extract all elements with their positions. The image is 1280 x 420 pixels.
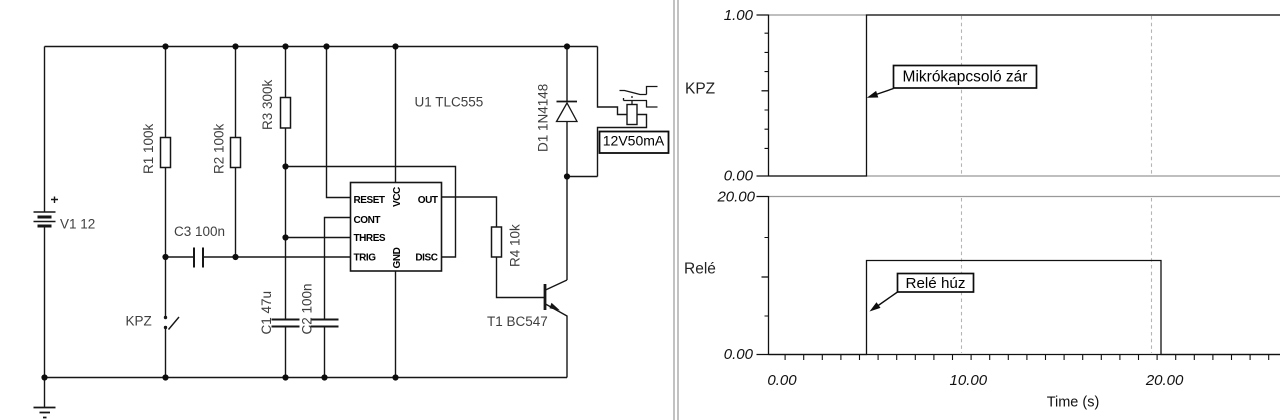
relay value box 12V50mA xyxy=(600,132,669,154)
svg-text:C1 47u: C1 47u xyxy=(259,291,274,335)
y axis bottom plot xyxy=(757,196,769,355)
svg-text:D1 1N4148: D1 1N4148 xyxy=(536,84,551,152)
svg-text:10.00: 10.00 xyxy=(950,372,988,389)
wire THRES row xyxy=(286,237,351,239)
wire relay node row xyxy=(567,176,598,178)
wire OUT to R4 xyxy=(442,197,497,227)
svg-text:OUT: OUT xyxy=(418,195,438,206)
y axis bottom plot minor ticks xyxy=(765,238,769,317)
dashed gridline t=20 xyxy=(1151,16,1153,353)
plot bottom border (0.00 level top plot) gray xyxy=(769,175,1280,177)
node rail C2 xyxy=(321,374,327,380)
svg-text:DISC: DISC xyxy=(415,253,437,264)
switch KPZ xyxy=(164,316,179,330)
svg-text:VCC: VCC xyxy=(392,187,403,207)
svg-text:20.00: 20.00 xyxy=(716,189,755,206)
relay K1 coil xyxy=(627,105,637,125)
node top rail / R2 xyxy=(232,43,238,49)
resistor R4 xyxy=(492,227,502,257)
wire KPZ branch lower xyxy=(165,329,167,378)
dashed gridline t=10 xyxy=(961,16,963,353)
resistor R3 xyxy=(281,98,291,129)
node top rail / D1 xyxy=(564,43,570,49)
resistor R1 xyxy=(161,138,171,168)
callout arrow 2 xyxy=(878,292,898,306)
y axis top plot xyxy=(757,15,769,177)
battery V1 xyxy=(34,197,59,227)
diode D1 xyxy=(557,102,578,122)
svg-text:12V50mA: 12V50mA xyxy=(603,133,665,149)
svg-text:THRES: THRES xyxy=(354,233,386,244)
wire R3 node to DISC link xyxy=(286,167,456,258)
wire bottom rail xyxy=(45,377,568,379)
svg-text:KPZ: KPZ xyxy=(126,314,152,329)
wire diode/collector vertical xyxy=(566,47,568,281)
node top rail / RESET xyxy=(323,43,329,49)
svg-text:0.00: 0.00 xyxy=(767,372,797,389)
svg-text:0.00: 0.00 xyxy=(724,168,754,185)
callout box Rele huz xyxy=(898,274,974,293)
wire KPZ branch upper xyxy=(165,257,167,316)
svg-text:20.00: 20.00 xyxy=(1145,372,1184,389)
node rail GND pin xyxy=(392,374,398,380)
wire left vertical (battery branch) xyxy=(44,47,46,378)
node R3-DISC xyxy=(282,163,288,169)
node top rail / R3 xyxy=(282,43,288,49)
x axis line xyxy=(769,354,1280,356)
svg-text:KPZ: KPZ xyxy=(685,81,715,98)
wire top rail xyxy=(45,46,598,48)
wire R3 branch xyxy=(285,47,287,167)
node D1-collector-relay xyxy=(564,173,570,179)
svg-text:R3 300k: R3 300k xyxy=(260,79,275,130)
wire GND pin xyxy=(395,271,397,378)
capacitor C3 xyxy=(194,248,203,268)
node rail KPZ xyxy=(162,374,168,380)
op-amp/IC U1 TLC555 box xyxy=(351,183,442,272)
wire R1 branch xyxy=(165,47,167,258)
transistor T1 xyxy=(545,280,567,316)
node ground rail left xyxy=(41,374,47,380)
wire relay return xyxy=(598,115,647,177)
svg-text:GND: GND xyxy=(392,247,403,268)
svg-text:Mikrókapcsoló zár: Mikrókapcsoló zár xyxy=(903,69,1028,86)
svg-text:T1 BC547: T1 BC547 xyxy=(487,314,548,329)
svg-text:Relé húz: Relé húz xyxy=(906,275,966,292)
wire relay left feed xyxy=(598,47,628,115)
node top rail / R1 xyxy=(162,43,168,49)
wire VCC pin xyxy=(395,47,397,183)
svg-text:U1 TLC555: U1 TLC555 xyxy=(415,95,484,110)
wire emitter to bottom rail xyxy=(566,316,568,378)
svg-text:RESET: RESET xyxy=(354,195,385,206)
svg-text:0.00: 0.00 xyxy=(724,346,754,363)
wire TRIG row xyxy=(166,256,351,258)
svg-text:R1 100k: R1 100k xyxy=(141,123,156,174)
svg-text:R2 100k: R2 100k xyxy=(212,123,227,174)
wire CONT row to C2 xyxy=(325,218,351,378)
KPZ trace xyxy=(769,15,1280,176)
node TRIG-R2 xyxy=(232,254,238,260)
splitter divider xyxy=(674,0,678,420)
plot top border (1.00 level) gray xyxy=(769,14,1280,16)
node top rail / VCC xyxy=(392,43,398,49)
svg-text:CONT: CONT xyxy=(354,215,381,226)
wire R4 to base xyxy=(497,257,545,298)
wire ground stem xyxy=(44,378,46,408)
svg-text:Relé: Relé xyxy=(684,261,716,278)
y axis top plot minor ticks xyxy=(765,33,769,148)
wire THRES node vertical to C1 xyxy=(285,167,287,378)
svg-text:1.00: 1.00 xyxy=(724,7,754,24)
ground symbol xyxy=(34,408,56,418)
callout arrow 1 xyxy=(876,89,894,95)
relay armature link xyxy=(624,96,658,107)
capacitor C2 xyxy=(311,320,339,327)
svg-text:C3 100n: C3 100n xyxy=(174,224,225,239)
wire R2 branch xyxy=(235,47,237,258)
node rail C1 xyxy=(282,374,288,380)
svg-text:TRIG: TRIG xyxy=(354,253,377,264)
svg-text:C2 100n: C2 100n xyxy=(300,283,315,334)
x axis minor ticks xyxy=(785,355,1269,360)
callout box Mikrokapcsolo zar xyxy=(894,66,1037,89)
wire RESET feed from top rail xyxy=(327,47,351,198)
relay contact lever xyxy=(620,87,658,95)
resistor R2 xyxy=(231,138,241,168)
capacitor C1 xyxy=(272,320,300,327)
node TRIG-C3-R1 xyxy=(162,254,168,260)
Rele trace xyxy=(769,261,1280,355)
node THRES xyxy=(282,234,288,240)
plot2 top border (20.00 level) gray xyxy=(769,196,1280,198)
svg-text:R4 10k: R4 10k xyxy=(508,224,523,267)
svg-text:V1 12: V1 12 xyxy=(60,217,95,232)
svg-text:Time (s): Time (s) xyxy=(1047,395,1100,411)
